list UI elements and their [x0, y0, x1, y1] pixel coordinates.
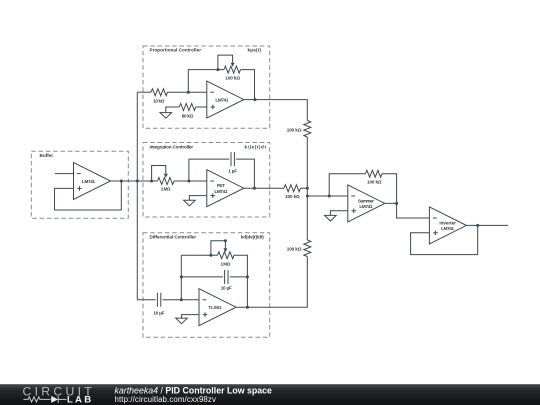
node: proportional feedback/output junction [254, 98, 257, 101]
node: buffer feedback junction [120, 180, 123, 183]
node: integration pot left terminal [150, 180, 153, 183]
svg-text:LAB: LAB [67, 395, 93, 405]
svg-text:Inverter: Inverter [439, 220, 456, 225]
node: integration output joins bus [306, 187, 309, 190]
svg-text:100 kΩ: 100 kΩ [367, 179, 382, 184]
wire: differential input lead [137, 299, 155, 301]
svg-text:100 kΩ: 100 kΩ [225, 76, 240, 81]
node: diff pot left tap [209, 254, 212, 257]
wire: integrator feedback left riser [189, 159, 229, 181]
wire: summer feedback riser [329, 174, 365, 196]
node: diff cap branch right [246, 275, 249, 278]
svg-text:http://circuitlab.com/cxx98zv: http://circuitlab.com/cxx98zv [115, 395, 216, 404]
node: differentiator summing node [180, 298, 183, 301]
Proportional Controller dashed enclosure [143, 46, 270, 128]
Differential Controller dashed enclosure [143, 233, 270, 338]
wire: 100k to bus [301, 187, 308, 189]
ground: proportional [160, 113, 172, 119]
op-amp U2 proportional LM741 [207, 81, 244, 118]
wire: summer output to inverter input [385, 203, 430, 218]
svg-text:100 kΩ: 100 kΩ [287, 128, 302, 133]
svg-text:LM741: LM741 [215, 97, 228, 102]
svg-text:10 µF: 10 µF [221, 285, 232, 290]
svg-text:10 kΩ: 10 kΩ [153, 99, 165, 104]
logo wire zigzag and diode [24, 396, 67, 403]
wire: bus bottom to differential output [236, 257, 307, 308]
resistor 100 kOhm proportional to summer (vertical) [304, 121, 311, 138]
wire: cap to differentiator inverting input [163, 299, 200, 301]
wire: differential feedback left riser [180, 255, 182, 300]
potentiometer 100 kOhm proportional feedback [218, 55, 241, 73]
wire: 60k to ground [166, 107, 180, 113]
capacitor 10 uF differential feedback [225, 270, 228, 284]
node: inverter feedback junction [476, 224, 479, 227]
capacitor 10 uF differential input [157, 293, 160, 307]
potentiometer 1 MOhm integration input [152, 166, 174, 185]
wire: riser to pot branch [181, 254, 217, 256]
wire: buffer output [111, 180, 138, 182]
op-amp U3 integrator FET LM741 [207, 170, 244, 207]
ground: summer [325, 215, 337, 221]
svg-text:Buffer: Buffer [40, 153, 54, 158]
svg-text:Summer: Summer [358, 198, 374, 203]
capacitor 1 uF integrator feedback [231, 152, 234, 166]
Buffer dashed enclosure [31, 151, 128, 218]
svg-text:LM741: LM741 [359, 204, 372, 209]
wire: 60k to non-inverting input [196, 106, 207, 108]
wire: inverter feedback loop [411, 225, 478, 254]
wire: cap branch left lead [181, 276, 223, 278]
wire: proportional feedback riser [188, 70, 224, 93]
wire: integrator output to 100k [244, 187, 284, 189]
op-amp U1 buffer LM741 [74, 163, 111, 200]
node: summer takeoff [306, 195, 309, 198]
wire: cap to output drop [236, 159, 254, 188]
node: diff pot wiper corner [224, 239, 227, 242]
svg-text:1 MΩ: 1 MΩ [221, 261, 231, 266]
svg-text:FET: FET [217, 183, 225, 188]
svg-text:100 kΩ: 100 kΩ [287, 246, 302, 251]
wire: differentiator non-inverting to ground [182, 315, 200, 319]
wire: 10k to inverting input [168, 91, 207, 93]
svg-text:kd(de(t)/dt): kd(de(t)/dt) [241, 234, 264, 239]
wire: integrator non-inverting to ground [189, 196, 206, 201]
wire: input distribution bus vertical [136, 92, 138, 300]
wire: pot to integrator inverting input [174, 180, 207, 182]
svg-text:10 µF: 10 µF [153, 310, 164, 315]
wire: pot right lead down to output [241, 70, 255, 100]
wire: final output [466, 224, 508, 226]
svg-text:ki∫e(t)dt: ki∫e(t)dt [245, 145, 267, 150]
svg-text:1 MΩ: 1 MΩ [161, 186, 171, 191]
wire: proportional output to 100k drop resistor [244, 100, 307, 121]
wire: buffer feedback loop output to non-inverting input [55, 181, 122, 210]
wire: integration input lead [137, 180, 157, 182]
op-amp U4 differentiator TL081 [199, 289, 236, 326]
resistor 100 kOhm integration to summer [284, 185, 301, 192]
wire: buffer inverting input stub [55, 173, 74, 175]
resistor 60 kOhm bias [179, 104, 196, 111]
op-amp U6 inverter LM741 [429, 207, 466, 244]
op-amp U5 summer LM741 [348, 185, 385, 222]
node: summer output junction [395, 202, 398, 205]
ground: differentiator [176, 318, 188, 324]
svg-text:100 kΩ: 100 kΩ [285, 194, 300, 199]
svg-text:kpe(t): kpe(t) [248, 48, 262, 53]
Integration Controller dashed enclosure [143, 143, 270, 218]
svg-text:Differential Controller: Differential Controller [150, 234, 197, 239]
svg-text:LM741: LM741 [441, 226, 454, 231]
wire: summing bus vertical middle [306, 137, 308, 240]
wire: proportional input lead [137, 91, 151, 93]
potentiometer 1 MOhm differential feedback [211, 241, 234, 259]
svg-text:1 µF: 1 µF [228, 168, 237, 173]
svg-text:Proportional Controller: Proportional Controller [150, 48, 202, 53]
wire: feedback to summer output [382, 174, 397, 204]
ground: integrator [184, 200, 196, 206]
svg-text:TL081: TL081 [208, 305, 221, 310]
svg-text:LM741: LM741 [82, 179, 95, 184]
node: proportional summing node [187, 91, 190, 94]
node: integrator summing node [187, 180, 190, 183]
footer bar [0, 384, 540, 405]
svg-text:Integration Controller: Integration Controller [150, 145, 194, 150]
node: bus / buffer output junction [136, 180, 139, 183]
node: summer feedback tap [328, 195, 331, 198]
svg-text:LM741: LM741 [214, 189, 227, 194]
node: pot left terminal tap [216, 68, 219, 71]
resistor 100 kOhm summer feedback [366, 170, 383, 177]
node: differentiator output junction [246, 306, 249, 309]
svg-text:60 kΩ: 60 kΩ [182, 113, 194, 118]
resistor 10 kOhm proportional input [151, 89, 168, 96]
wire: summer non-inverting to ground [330, 211, 347, 216]
wire: summer input [307, 195, 348, 197]
node: diff cap branch left [180, 275, 183, 278]
wire: pot right lead to right riser [234, 255, 247, 307]
resistor 100 kOhm differential to summer (vertical) [304, 240, 311, 257]
wire: cap branch right lead [230, 276, 248, 278]
node: integrator output junction [253, 187, 256, 190]
